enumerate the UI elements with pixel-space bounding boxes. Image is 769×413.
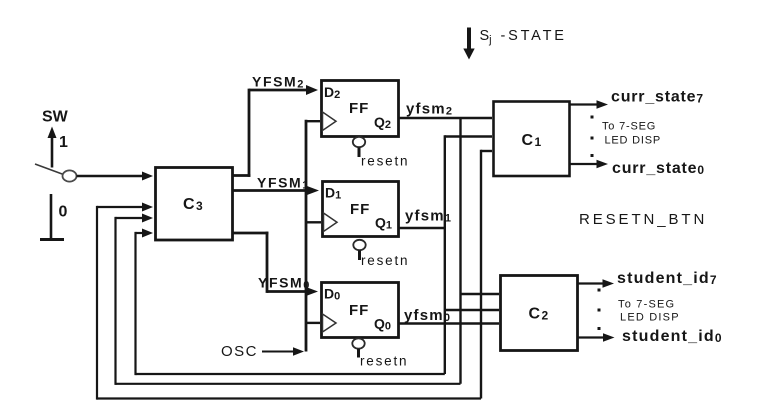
- wire YFSM2: C3 to FF2 D input: [233, 85, 318, 177]
- switch SW label: [42, 109, 69, 126]
- switch label 1: [59, 134, 68, 151]
- svg-text:LED DISP: LED DISP: [620, 312, 680, 324]
- switch position-0 bottom bar: [40, 238, 64, 241]
- label yfsm2: [406, 101, 453, 118]
- C1 output curr_state0 wire: [571, 160, 609, 168]
- svg-text:student_id0: student_id0: [622, 328, 723, 345]
- svg-text:C3: C3: [183, 196, 204, 213]
- net yfsm0 feedback: left vertical + arrow into C3 input 1: [97, 203, 481, 400]
- clock distribution line: [306, 120, 321, 352]
- combinational block C1: [494, 102, 570, 177]
- svg-text:FF: FF: [350, 201, 370, 218]
- svg-text:LED DISP: LED DISP: [605, 135, 662, 147]
- label YFSM0: [258, 275, 311, 292]
- combinational block C2: [501, 276, 578, 351]
- svg-text:resetn: resetn: [361, 253, 409, 268]
- FF1 resetn label: [361, 253, 409, 268]
- label student_id0: [622, 328, 723, 345]
- svg-text:C1: C1: [522, 132, 543, 149]
- label yfsm1: [405, 208, 452, 225]
- switch pole circle: [63, 170, 77, 181]
- label RESETN_BTN: [579, 211, 707, 228]
- svg-text:curr_state0: curr_state0: [612, 160, 705, 177]
- svg-text:YFSM1: YFSM1: [257, 174, 310, 191]
- svg-text:resetn: resetn: [361, 154, 409, 169]
- label OSC: [221, 343, 258, 360]
- svg-text:resetn: resetn: [360, 354, 408, 369]
- label YFSM1: [257, 174, 310, 191]
- FF1 resetn bubble: [353, 240, 365, 260]
- svg-text:To 7-SEG: To 7-SEG: [602, 121, 656, 133]
- net yfsm2: FF2 Q to C1 and down to C2 and feedback: [399, 118, 499, 384]
- label yfsm0: [404, 307, 451, 324]
- FF2 resetn label: [361, 154, 409, 169]
- label curr_state0: [612, 160, 705, 177]
- C2 output student_id7 wire: [578, 279, 614, 287]
- net yfsm0: FF0 Q to C2 / C1 and feedback: [399, 150, 499, 399]
- label To 7-SEG / LED DISP (C2): [618, 299, 680, 324]
- svg-text:-STATE: -STATE: [501, 28, 567, 44]
- switch label 0: [59, 204, 68, 221]
- C2 ellipsis dots: [598, 289, 601, 331]
- wire YFSM1: C3 to FF1 D input: [233, 186, 319, 195]
- flip-flop U2 (FF D2/Q2): [322, 81, 399, 137]
- flip-flop U0 (FF D0/Q0): [322, 283, 399, 338]
- FF0 resetn label: [360, 354, 408, 369]
- svg-text:student_id7: student_id7: [617, 270, 718, 287]
- svg-text:1: 1: [59, 134, 68, 151]
- FF0 resetn bubble: [352, 338, 364, 357]
- flip-flop U1 (FF D1/Q1): [323, 182, 399, 237]
- label student_id7: [617, 270, 718, 287]
- wire YFSM0: C3 to FF0 D input: [233, 232, 318, 296]
- label curr_state7: [611, 89, 704, 106]
- svg-text:YFSM2: YFSM2: [252, 73, 305, 90]
- label Sj -STATE: [480, 28, 567, 46]
- C1 ellipsis dots: [591, 116, 594, 158]
- svg-text:0: 0: [59, 204, 68, 221]
- switch position-1 contact line with up arrow: [48, 127, 57, 168]
- svg-text:YFSM0: YFSM0: [258, 275, 311, 292]
- svg-text:curr_state7: curr_state7: [611, 89, 704, 106]
- svg-text:RESETN_BTN: RESETN_BTN: [579, 211, 707, 228]
- FF2 resetn bubble: [353, 137, 365, 157]
- svg-text:C2: C2: [529, 306, 550, 323]
- svg-text:SW: SW: [42, 109, 69, 126]
- C1 output curr_state7 wire: [571, 100, 609, 108]
- S-state entry arrow: [463, 28, 474, 60]
- net yfsm1 feedback: left vertical + arrow into C3 input 3: [136, 229, 445, 376]
- svg-text:To 7-SEG: To 7-SEG: [618, 299, 675, 311]
- net yfsm1: FF1 Q to C1 / C2 and feedback: [399, 135, 499, 374]
- svg-text:FF: FF: [349, 100, 369, 117]
- combinational block C3: [156, 168, 233, 241]
- switch lever: [35, 164, 64, 175]
- svg-text:FF: FF: [349, 302, 369, 319]
- net yfsm2 feedback: left vertical + arrow into C3 input 2: [116, 214, 461, 385]
- label To 7-SEG / LED DISP (C1): [602, 121, 661, 147]
- svg-text:OSC: OSC: [221, 343, 258, 360]
- wire OSC into clock line: [262, 347, 304, 355]
- wire SW to C3 input: [77, 172, 154, 181]
- label YFSM2: [252, 73, 305, 90]
- C2 output student_id0 wire: [578, 333, 615, 341]
- switch position-0 contact line: [50, 194, 53, 238]
